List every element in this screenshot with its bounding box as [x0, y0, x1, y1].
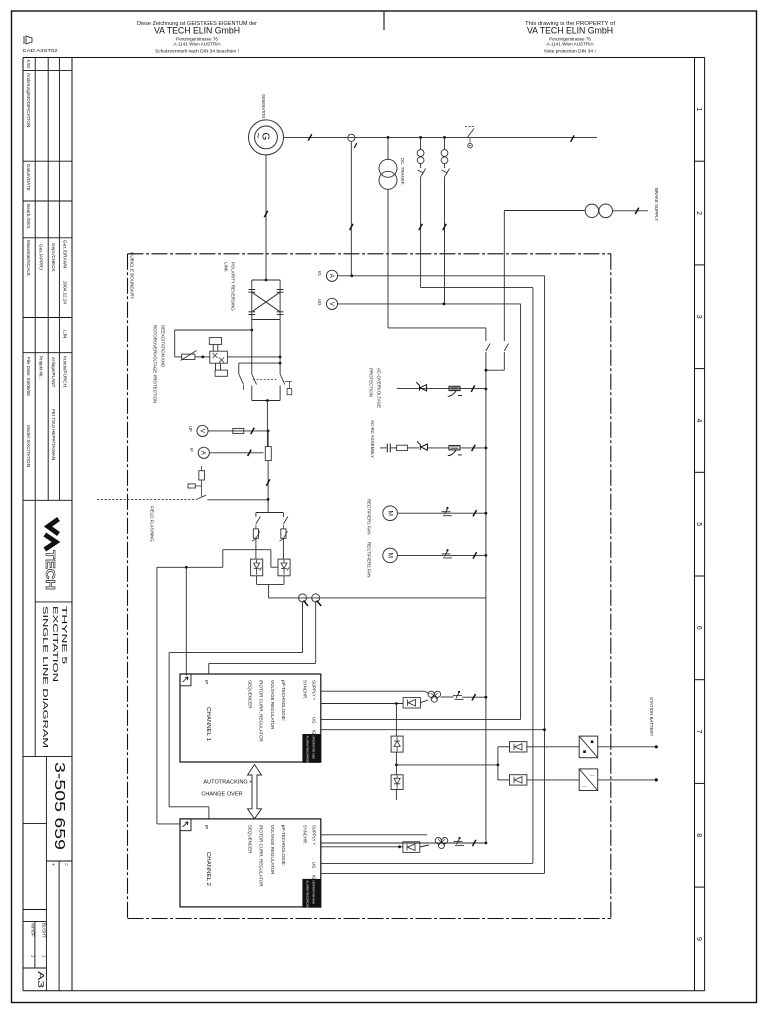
svg-text:5: 5: [695, 522, 702, 526]
svg-text:3: 3: [695, 315, 702, 319]
svg-text:Massstab/SCALE: Massstab/SCALE: [26, 240, 31, 276]
svg-text:STATION BATTERY: STATION BATTERY: [649, 697, 654, 737]
svg-text:ALARM RECORDER: ALARM RECORDER: [306, 880, 310, 909]
svg-text:UG: UG: [311, 717, 316, 724]
svg-text:Ges./APPRJ: Ges./APPRJ: [39, 244, 44, 270]
svg-text:2004.12.24: 2004.12.24: [63, 281, 68, 304]
svg-text:RECTIFIER2 FAN: RECTIFIER2 FAN: [367, 542, 372, 577]
svg-text:DC. TRANSF.: DC. TRANSF.: [400, 158, 405, 185]
svg-text:Kunde/PURCH.: Kunde/PURCH.: [63, 356, 68, 388]
svg-text:/ROTOR CURR. REGULATOR: /ROTOR CURR. REGULATOR: [259, 680, 264, 743]
svg-text:A-1141 Wien AUSTRIA: A-1141 Wien AUSTRIA: [546, 42, 594, 47]
svg-text:Schutzvermerk nach DIN 34 beac: Schutzvermerk nach DIN 34 beachten !: [155, 49, 239, 55]
svg-text:VA TECH ELIN GmbH: VA TECH ELIN GmbH: [527, 26, 613, 36]
svg-text:AC-RC ASSEMBLY: AC-RC ASSEMBLY: [370, 420, 375, 458]
svg-text:2: 2: [695, 211, 702, 215]
svg-text:Anlage/PLANT: Anlage/PLANT: [51, 357, 56, 388]
svg-text:V: V: [198, 429, 204, 433]
svg-text:THYNE 5: THYNE 5: [60, 606, 69, 664]
svg-text:Gez./DRAWN: Gez./DRAWN: [63, 240, 68, 268]
svg-text:M: M: [387, 553, 394, 558]
svg-text:CAD A3ST02: CAD A3ST02: [23, 48, 58, 54]
svg-text:SEQUENCER: SEQUENCER: [248, 680, 253, 709]
svg-text:ALARM RECORDER: ALARM RECORDER: [306, 736, 310, 765]
svg-text:SYNCHR.: SYNCHR.: [302, 825, 307, 844]
svg-text:K/W: K/W: [26, 60, 31, 69]
svg-text:Datum/DATE: Datum/DATE: [26, 164, 31, 191]
svg-text:UF: UF: [188, 426, 193, 432]
svg-text:GENERATOR: GENERATOR: [261, 94, 266, 118]
svg-text:PROTECTION: PROTECTION: [369, 368, 374, 397]
svg-text:Note protection DIN 34 !: Note protection DIN 34 !: [544, 49, 595, 55]
svg-text:DEEXCITATION AND: DEEXCITATION AND: [161, 325, 166, 367]
svg-text:AC-OVERVOLTAGE: AC-OVERVOLTAGE: [377, 368, 382, 408]
svg-text:SEQUENCER: SEQUENCER: [248, 825, 253, 854]
svg-text:Bearb./DES.: Bearb./DES.: [26, 204, 31, 230]
svg-text:TECH: TECH: [43, 550, 58, 590]
svg-text:LJN: LJN: [63, 330, 68, 338]
svg-text:OPERATOR AND: OPERATOR AND: [312, 880, 316, 904]
svg-text:IP: IP: [204, 825, 209, 829]
svg-text:Projekt-Nr.:: Projekt-Nr.:: [39, 356, 44, 379]
svg-text:VOLTAGE REGULATOR: VOLTAGE REGULATOR: [270, 825, 275, 875]
svg-text:CHANGE OVER: CHANGE OVER: [201, 792, 242, 798]
svg-text:∼: ∼: [254, 132, 264, 139]
svg-text:7: 7: [695, 730, 702, 734]
svg-text:BL/SHT.: BL/SHT.: [42, 923, 47, 938]
svg-text:4: 4: [695, 418, 702, 422]
svg-text:──: ──: [589, 774, 595, 778]
svg-text:ROTOROVERVOLTAGE PROTECTION: ROTOROVERVOLTAGE PROTECTION: [153, 325, 158, 403]
svg-text:µP-TECHNOLOGIE:: µP-TECHNOLOGIE:: [281, 680, 286, 721]
svg-text:──: ──: [581, 785, 587, 789]
svg-text:von/OF: von/OF: [31, 923, 36, 937]
svg-text:3-505 659: 3-505 659: [51, 762, 67, 850]
svg-text:BRAKE SUPPLY: BRAKE SUPPLY: [654, 188, 659, 221]
svg-text:µP-TECHNOLOGIE:: µP-TECHNOLOGIE:: [281, 825, 286, 866]
svg-text:A-1141 Wien AUSTRIA: A-1141 Wien AUSTRIA: [173, 42, 221, 47]
svg-text:9: 9: [695, 937, 702, 941]
svg-text:V: V: [328, 302, 334, 306]
svg-text:Model: EXCITATION: Model: EXCITATION: [26, 425, 31, 467]
svg-text:FIELD FLASHING: FIELD FLASHING: [150, 506, 155, 542]
svg-text:A: A: [328, 274, 334, 278]
svg-text:File Date: 03/05/06: File Date: 03/05/06: [26, 357, 31, 396]
svg-text:LINK: LINK: [224, 262, 229, 272]
svg-text:FEI TSUI HEPP/TAIWAN: FEI TSUI HEPP/TAIWAN: [51, 409, 56, 460]
svg-text:8: 8: [695, 833, 702, 837]
svg-text:M: M: [387, 510, 394, 515]
svg-text:SYNCHR.: SYNCHR.: [302, 680, 307, 699]
svg-text:AUTOTRACKING +: AUTOTRACKING +: [203, 780, 252, 786]
svg-text:CHANNEL 2: CHANNEL 2: [205, 852, 211, 886]
svg-text:+: +: [50, 863, 56, 866]
svg-text:6: 6: [695, 626, 702, 630]
svg-text:=: =: [63, 863, 69, 866]
svg-text:IG: IG: [317, 271, 322, 276]
svg-text:VA TECH ELIN GmbH: VA TECH ELIN GmbH: [154, 26, 240, 36]
svg-text:OPERATOR AND: OPERATOR AND: [312, 736, 316, 760]
svg-text:VOLTAGE REGULATOR: VOLTAGE REGULATOR: [270, 680, 275, 730]
svg-text:A3: A3: [36, 971, 46, 988]
svg-text:SUPPLY +: SUPPLY +: [311, 680, 316, 701]
svg-text:SUPPLY +: SUPPLY +: [311, 825, 316, 846]
svg-text:UG: UG: [317, 299, 322, 306]
svg-text:UG: UG: [311, 862, 316, 869]
svg-text:Gepr./CHECK: Gepr./CHECK: [51, 243, 56, 273]
svg-text:EXCITATION: EXCITATION: [51, 606, 60, 682]
svg-text:A: A: [200, 451, 206, 455]
svg-text:IF: IF: [189, 448, 194, 452]
svg-text:Änderung/MODIFICATION: Änderung/MODIFICATION: [26, 73, 32, 127]
svg-text:1: 1: [695, 107, 702, 111]
svg-text:IP: IP: [204, 680, 209, 684]
svg-text:SINGLE LINE DIAGRAM: SINGLE LINE DIAGRAM: [41, 606, 50, 748]
svg-text:CUBICLE BOUNDARY: CUBICLE BOUNDARY: [130, 252, 135, 299]
svg-text:CHANNEL 1: CHANNEL 1: [205, 707, 211, 741]
svg-text:POLARITY REVERSING: POLARITY REVERSING: [231, 262, 236, 311]
svg-text:RECTIFIER1 FAN: RECTIFIER1 FAN: [367, 499, 372, 534]
svg-text:/ROTOR CURR. REGULATOR: /ROTOR CURR. REGULATOR: [259, 825, 264, 888]
